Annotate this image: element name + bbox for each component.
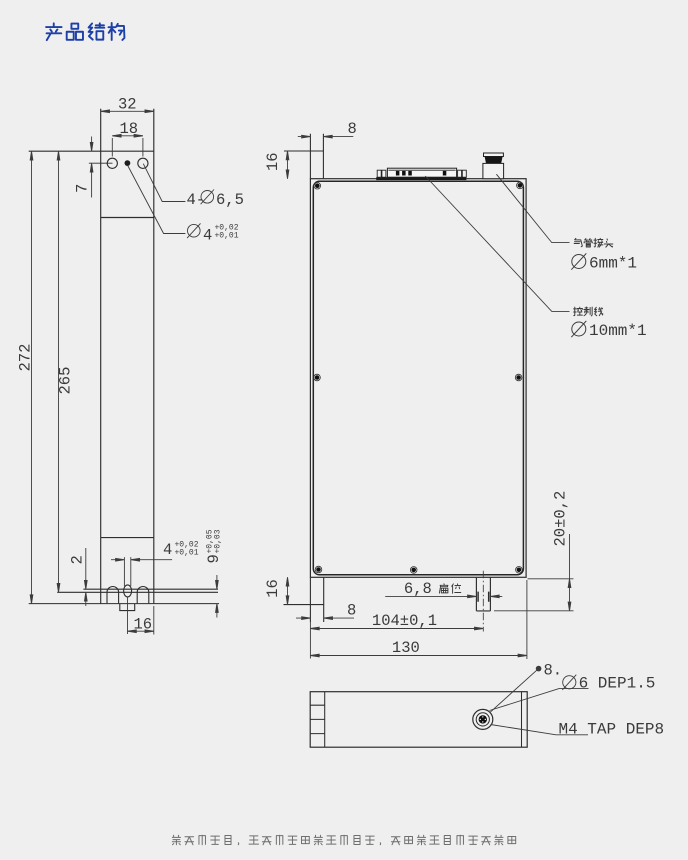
connector pins [396, 171, 446, 176]
air fitting cap [484, 153, 504, 157]
svg-text:20±0,2: 20±0,2 [551, 491, 569, 547]
screw top-left [314, 182, 321, 189]
bottom center slot oval [124, 585, 132, 597]
screw bottom-center [410, 567, 417, 574]
svg-text:+0,01: +0,01 [215, 231, 239, 240]
svg-text:130: 130 [392, 639, 420, 657]
svg-text:4: 4 [203, 226, 212, 244]
label 控制线 [574, 307, 603, 316]
tab center extension [127, 597, 129, 634]
left view bottom edges [29, 589, 219, 603]
svg-text:8: 8 [347, 601, 356, 619]
svg-text:272: 272 [17, 344, 35, 372]
dimension 6,8 flat [385, 580, 502, 598]
hole H1 left Ø6.5 [107, 158, 117, 168]
svg-text:4: 4 [163, 541, 172, 559]
dimension 8 bottom [296, 601, 356, 619]
screw bottom-right [516, 567, 523, 574]
bottom view hole feature [473, 709, 493, 729]
dimension 130 [310, 580, 527, 659]
slot extension lines [124, 557, 130, 586]
screw bottom-left [315, 566, 322, 573]
svg-text:7: 7 [74, 184, 92, 193]
svg-text:8.: 8. [544, 662, 563, 680]
dimension 272 [17, 151, 35, 603]
stem centerline [482, 571, 484, 632]
svg-text:10mm*1: 10mm*1 [589, 322, 647, 340]
title 产品结构 [46, 23, 124, 40]
dimension 20±0,2 [494, 491, 574, 611]
bottom arc slot right [137, 587, 149, 604]
svg-text:2: 2 [69, 555, 87, 564]
connector side tabs [377, 170, 466, 177]
leader M4 TAP DEP8 [491, 721, 665, 739]
svg-text:6,8: 6,8 [404, 580, 432, 598]
svg-text:+0,03: +0,03 [214, 529, 223, 553]
bottom view left segment column [310, 692, 325, 748]
bottom arc slot left [107, 587, 119, 604]
dimension 2 [69, 548, 88, 606]
dimension 8 top [298, 120, 357, 138]
svg-text:6 DEP1.5: 6 DEP1.5 [579, 675, 656, 693]
svg-text:M4 TAP DEP8: M4 TAP DEP8 [559, 721, 665, 739]
svg-text:8: 8 [348, 120, 357, 138]
bottom view right strip [521, 692, 523, 748]
dimension 18 [112, 120, 143, 156]
label Ø10mm*1 [571, 321, 646, 340]
right view body outer rect [310, 179, 526, 578]
bottom view outline [310, 692, 527, 748]
leader Ø8 with dot [491, 662, 563, 712]
connector base bar [376, 177, 466, 180]
dimension 32 [101, 95, 154, 113]
dimension 16 bottom [128, 606, 154, 635]
svg-text:16: 16 [264, 579, 282, 598]
left view column outline [29, 109, 154, 604]
svg-text:+0,01: +0,01 [175, 549, 199, 558]
svg-text:18: 18 [120, 120, 139, 138]
leader 4-Ø6,5 [143, 164, 244, 209]
dimension 16 bottom-left [264, 577, 289, 604]
svg-text:16: 16 [134, 616, 153, 634]
dimension 7 [74, 137, 93, 198]
svg-text:6mm*1: 6mm*1 [589, 254, 637, 272]
leader Ø4 tolerance [128, 166, 239, 245]
connector main block [387, 168, 456, 177]
screw top-right [517, 182, 524, 189]
screw mid-right [515, 374, 522, 381]
label Ø6mm*1 [571, 253, 637, 272]
dimension 4 slot with tolerance [111, 541, 199, 562]
svg-text:6,5: 6,5 [216, 191, 244, 209]
dimension 265 [57, 151, 75, 592]
svg-text:16: 16 [264, 152, 282, 171]
hole centerline stub [89, 162, 113, 164]
dimension 16 top-left [264, 151, 289, 179]
pin hole Ø4 filled [125, 160, 131, 166]
dimension 104±0,1 [310, 612, 483, 630]
leader control wire [425, 176, 569, 311]
svg-text:104±0,1: 104±0,1 [372, 612, 437, 630]
air fitting dark band [485, 157, 503, 164]
svg-text:265: 265 [57, 367, 75, 395]
label 气管接头 [574, 238, 613, 247]
svg-text:9: 9 [205, 554, 223, 563]
dimension 9 with tolerance [205, 529, 223, 617]
hole H2 right Ø6.5 [138, 158, 148, 168]
footer note text [172, 835, 515, 845]
bottom-left mounting tab [284, 577, 324, 622]
screw mid-left [314, 374, 321, 381]
leader air fitting [496, 174, 569, 242]
svg-text:32: 32 [118, 95, 137, 113]
bottom tab [120, 604, 135, 611]
stem shaft Ø8 [476, 577, 490, 611]
right view inner panel rounded rect [313, 181, 523, 575]
air fitting body [483, 163, 504, 178]
top-left mounting tab [284, 134, 323, 179]
label 扁位 [439, 584, 460, 594]
leader Ø6 DEP1.5 [490, 675, 656, 711]
